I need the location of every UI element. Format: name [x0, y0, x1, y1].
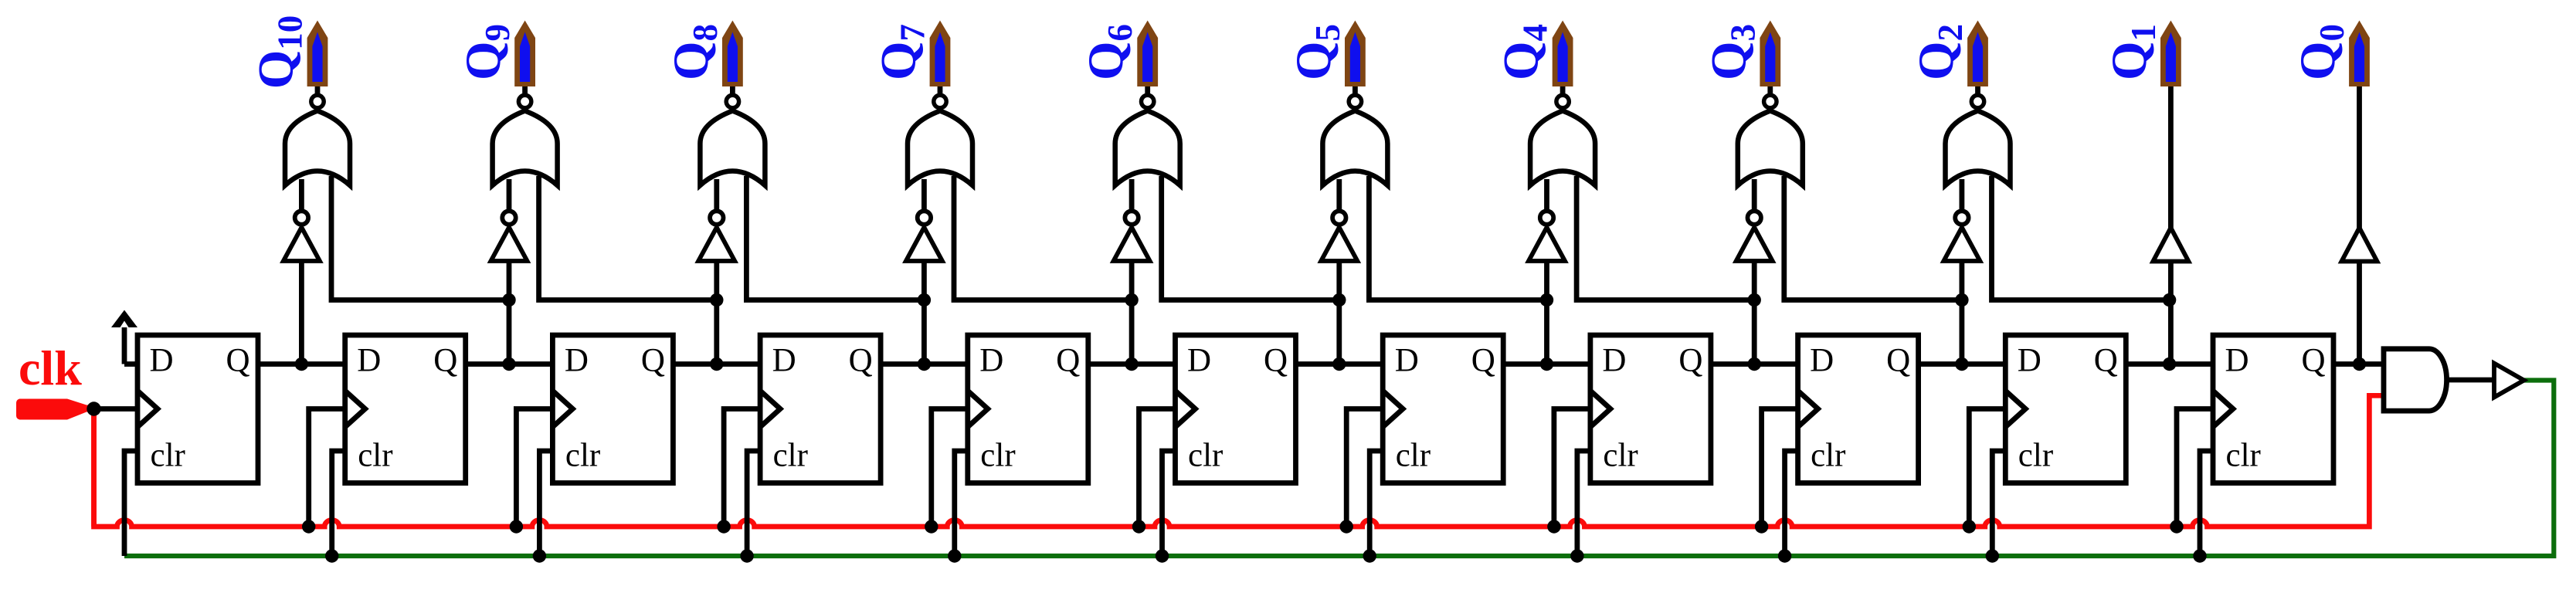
wire clr feed to U7 from green bus [1369, 451, 1383, 556]
svg-text:Q: Q [1056, 343, 1080, 379]
junction clear bus tap U8 [1570, 549, 1583, 562]
node Q2 [1955, 357, 1968, 371]
junction tap Q7 [918, 293, 931, 307]
junction clear bus tap U7 [1363, 549, 1376, 562]
wire NOR right input from Q2 tap [1784, 176, 1962, 300]
wire Q3 junction up to inverter [1752, 261, 1757, 364]
wire AND output to buffer [2447, 378, 2494, 383]
svg-text:Q: Q [849, 343, 873, 379]
junction clear bus tap U6 [1156, 549, 1169, 562]
node Q8 [710, 357, 723, 371]
D flip-flop U10 [2005, 335, 2126, 483]
NOR output bubble Q8 [726, 95, 738, 107]
svg-text:clr: clr [773, 438, 808, 474]
wire Q0 junction up to buffer [2357, 262, 2362, 364]
junction clock bus tap U5 [925, 520, 938, 533]
svg-text:clr: clr [1396, 438, 1431, 474]
wire NOR right input from Q3 tap [1576, 176, 1754, 300]
wire clock feed to U10 from red bus [1969, 409, 2005, 527]
svg-text:Q: Q [2302, 343, 2326, 379]
junction tap Q3 [1748, 293, 1761, 307]
wire Q of U2 to D of U3 [466, 361, 553, 367]
wire: red clock bus [94, 395, 2384, 527]
probe Q5 [1345, 21, 1366, 87]
wire Q of U8 to D of U9 [1711, 361, 1798, 367]
junction clock bus tap U3 [510, 520, 523, 533]
NOR gate stage Q10 [285, 111, 350, 186]
probe Q0 [2349, 21, 2370, 87]
svg-text:D: D [979, 343, 1003, 379]
NOR output bubble Q9 [518, 95, 531, 107]
wire clock feed to U2 from red bus [309, 409, 345, 527]
junction tap Q9 [502, 293, 515, 307]
svg-text:Q4: Q4 [1494, 24, 1555, 80]
wire Q4 junction up to inverter [1544, 261, 1549, 364]
wire clock feed to U6 from red bus [1139, 409, 1176, 527]
node Q6 [1125, 357, 1138, 371]
svg-text:Q10: Q10 [249, 15, 310, 90]
svg-text:D: D [1187, 343, 1211, 379]
NOR gate stage Q4 [1530, 111, 1595, 186]
clk input pin [19, 399, 94, 420]
wire bubble to probe [1560, 85, 1566, 93]
svg-text:clr: clr [565, 438, 600, 474]
inverter stage Q3 [1736, 211, 1773, 261]
NOR gate stage Q2 [1946, 111, 2011, 186]
svg-text:D: D [1810, 343, 1834, 379]
wire clr feed to U8 from green bus [1577, 451, 1590, 556]
junction clear bus tap U9 [1778, 549, 1791, 562]
junction clock bus tap U4 [717, 520, 730, 533]
D flip-flop U2 [345, 335, 466, 483]
probe Q6 [1137, 21, 1158, 87]
wire clr feed to U11 from green bus [2200, 451, 2213, 556]
wire Q of U7 to D of U8 [1503, 361, 1590, 367]
inverter stage Q4 [1529, 211, 1565, 261]
junction clear bus tap U10 [1986, 549, 1999, 562]
wire NOR right input from Q4 tap [1369, 176, 1546, 300]
wire inverter out to NOR left input [921, 179, 927, 209]
wire inverter out to NOR left input [507, 179, 512, 209]
probe Q7 [930, 21, 951, 87]
wire Q of U6 to D of U7 [1296, 361, 1383, 367]
node Q4 [1540, 357, 1553, 371]
node Q3 [1748, 357, 1761, 371]
wire Q6 junction up to inverter [1129, 261, 1135, 364]
junction clear bus tap U3 [533, 549, 546, 562]
wire Q of U5 to D of U6 [1088, 361, 1176, 367]
output buffer U13 [2494, 364, 2524, 398]
NOR gate stage Q6 [1115, 111, 1180, 186]
wire NOR right input from Q6 tap [954, 176, 1132, 300]
NOR output bubble Q2 [1971, 95, 1984, 107]
inverter stage Q8 [698, 211, 735, 261]
probe Q4 [1553, 21, 1573, 87]
junction clock bus tap U9 [1755, 520, 1768, 533]
wire clock feed to U4 from red bus [724, 409, 760, 527]
wire clock feed to U3 from red bus [516, 409, 552, 527]
wire Q10 junction up to inverter [299, 261, 304, 364]
wire NOR right input from Q7 tap [746, 176, 924, 300]
junction clear bus tap U5 [948, 549, 961, 562]
junction clock bus tap U11 [2170, 520, 2183, 533]
wire NOR right input from Q8 tap [539, 176, 717, 300]
NOR output bubble Q7 [934, 95, 946, 107]
wire Q7 junction up to inverter [921, 261, 927, 364]
D flip-flop U6 [1176, 335, 1296, 483]
probe Q10 [307, 21, 328, 87]
svg-text:clr: clr [1188, 438, 1223, 474]
wire bubble to probe [1352, 85, 1358, 93]
wire NOR right input from Q1 tap [1992, 176, 2170, 300]
wire clock feed to U11 from red bus [2177, 409, 2213, 527]
wire inverter out to NOR left input [1129, 179, 1135, 209]
wire clr feed to U3 from green bus [539, 451, 552, 556]
probe Q2 [1967, 21, 1988, 87]
inverter stage Q9 [491, 211, 528, 261]
AND gate U12 [2384, 349, 2447, 411]
wire Q2 junction up to inverter [1959, 261, 1964, 364]
svg-text:Q: Q [1886, 343, 1910, 379]
svg-text:clr: clr [1603, 438, 1638, 474]
junction clk node [87, 402, 100, 415]
wire inverter out to NOR left input [714, 179, 719, 209]
svg-text:D: D [1602, 343, 1626, 379]
wire bubble to probe [1767, 85, 1773, 93]
junction tap Q1 [2163, 293, 2176, 307]
junction tap Q6 [1125, 293, 1138, 307]
svg-text:Q7: Q7 [871, 24, 932, 80]
wire inverter out to NOR left input [1336, 179, 1342, 209]
svg-text:clr: clr [980, 438, 1015, 474]
wire clr feed to U5 from green bus [955, 451, 968, 556]
D flip-flop U4 [760, 335, 881, 483]
svg-text:D: D [1395, 343, 1419, 379]
svg-text:Q: Q [641, 343, 665, 379]
D flip-flop U3 [552, 335, 673, 483]
svg-text:D: D [2225, 343, 2249, 379]
junction clock bus tap U6 [1132, 520, 1145, 533]
svg-text:D: D [357, 343, 381, 379]
node Q7 [918, 357, 931, 371]
wire Q of U4 to D of U5 [881, 361, 968, 367]
junction clear bus tap U2 [325, 549, 338, 562]
wire bubble to probe [730, 85, 735, 93]
wire Q1 junction up to buffer [2168, 262, 2174, 364]
svg-text:clr: clr [2226, 438, 2261, 474]
svg-text:Q: Q [1678, 343, 1702, 379]
D flip-flop U1 [137, 335, 258, 483]
wire bubble to probe [522, 85, 528, 93]
junction clear bus tap U11 [2193, 549, 2206, 562]
wire NOR right input from Q5 tap [1162, 176, 1339, 300]
NOR gate stage Q9 [493, 111, 558, 186]
wire clr feed to U4 from green bus [747, 451, 760, 556]
junction tap Q2 [1955, 293, 1968, 307]
wire bubble to probe [1145, 85, 1150, 93]
wire bubble to probe [1975, 85, 1980, 93]
svg-text:clr: clr [2018, 438, 2053, 474]
wire: green clear bus from output buffer to all clr pins [124, 381, 2554, 557]
junction clock bus tap U7 [1340, 520, 1353, 533]
wire Q9 junction up to inverter [507, 261, 512, 364]
wire red clk drop to bus [91, 412, 97, 527]
node Q1 [2163, 357, 2176, 371]
inverter stage Q10 [283, 211, 320, 261]
svg-text:Q2: Q2 [1909, 24, 1970, 80]
NOR output bubble Q4 [1556, 95, 1569, 107]
wire Q of U1 to D of U2 [258, 361, 345, 367]
node Q0 [2353, 357, 2366, 371]
NOR gate stage Q7 [908, 111, 972, 186]
node Q9 [502, 357, 515, 371]
wire Q5 junction up to inverter [1336, 261, 1342, 364]
svg-text:Q0: Q0 [2290, 24, 2351, 80]
probe Q3 [1760, 21, 1780, 87]
svg-text:D: D [565, 343, 589, 379]
wire buffer to Q1 probe [2168, 85, 2174, 228]
svg-text:Q9: Q9 [456, 24, 517, 80]
wire clock feed to U9 from red bus [1762, 409, 1798, 527]
junction clock bus tap U10 [1963, 520, 1976, 533]
svg-text:Q: Q [226, 343, 250, 379]
svg-text:clr: clr [358, 438, 392, 474]
NOR gate stage Q8 [700, 111, 765, 186]
junction tap Q8 [710, 293, 723, 307]
node Q5 [1332, 357, 1346, 371]
wire Q of U10 to D of U11 [2126, 361, 2213, 367]
wire Q of U9 to D of U10 [1919, 361, 2006, 367]
NOR gate stage Q5 [1322, 111, 1387, 186]
wire NOR right input from Q9 tap [331, 176, 509, 300]
wire bubble to probe [315, 85, 321, 93]
inverter stage Q5 [1321, 211, 1357, 261]
svg-text:Q5: Q5 [1286, 24, 1347, 80]
wire clr feed to U1 from green bus [124, 451, 137, 556]
wire clr feed to U6 from green bus [1162, 451, 1176, 556]
wire clock feed to U5 from red bus [932, 409, 968, 527]
buffer Q0 [2342, 228, 2377, 262]
junction clock bus tap U8 [1547, 520, 1560, 533]
wire inverter out to NOR left input [1544, 179, 1549, 209]
D flip-flop U11 [2213, 335, 2333, 483]
svg-text:D: D [2018, 343, 2041, 379]
svg-text:Q: Q [433, 343, 457, 379]
wire bubble to probe [938, 85, 943, 93]
NOR gate stage Q3 [1738, 111, 1803, 186]
wire Q8 junction up to inverter [714, 261, 719, 364]
junction clock bus tap U2 [302, 520, 315, 533]
wire clock feed to U8 from red bus [1554, 409, 1590, 527]
wire clr feed to U10 from green bus [1992, 451, 2005, 556]
svg-text:Q: Q [1264, 343, 1288, 379]
buffer Q1 [2153, 228, 2188, 262]
svg-text:Q1: Q1 [2102, 24, 2163, 80]
svg-text:clk: clk [19, 341, 82, 395]
node Q10 [295, 357, 308, 371]
wire clk pin to FF1 clock input [94, 406, 138, 412]
probe Q8 [722, 21, 743, 87]
wire inverter out to NOR left input [1752, 179, 1757, 209]
wire Q of U11 to AND gate [2333, 361, 2384, 367]
inverter stage Q2 [1943, 211, 1980, 261]
wire buffer to Q0 probe [2357, 85, 2362, 228]
svg-text:Q3: Q3 [1701, 24, 1762, 80]
junction clear bus tap U4 [740, 549, 753, 562]
svg-text:clr: clr [1811, 438, 1845, 474]
wire clr feed to U2 from green bus [332, 451, 345, 556]
wire Q of U3 to D of U4 [673, 361, 760, 367]
D flip-flop U9 [1798, 335, 1919, 483]
D flip-flop U5 [968, 335, 1088, 483]
NOR output bubble Q6 [1142, 95, 1154, 107]
wire inverter out to NOR left input [299, 179, 304, 209]
probe Q9 [514, 21, 535, 87]
NOR output bubble Q5 [1349, 95, 1361, 107]
wire clock feed to U7 from red bus [1346, 409, 1383, 527]
power arrow (D input of U1 tied high) [111, 310, 137, 364]
svg-text:Q: Q [1471, 343, 1495, 379]
D flip-flop U8 [1590, 335, 1711, 483]
probe Q1 [2160, 21, 2181, 87]
svg-text:clr: clr [151, 438, 185, 474]
wire inverter out to NOR left input [1959, 179, 1964, 209]
svg-text:Q8: Q8 [664, 24, 725, 80]
svg-text:D: D [150, 343, 174, 379]
svg-text:Q: Q [2094, 343, 2118, 379]
junction tap Q5 [1332, 293, 1346, 307]
inverter stage Q7 [906, 211, 942, 261]
inverter stage Q6 [1114, 211, 1150, 261]
svg-text:D: D [772, 343, 796, 379]
junction tap Q4 [1540, 293, 1553, 307]
NOR output bubble Q10 [311, 95, 324, 107]
svg-text:Q6: Q6 [1078, 24, 1139, 80]
NOR output bubble Q3 [1764, 95, 1777, 107]
D flip-flop U7 [1383, 335, 1503, 483]
wire clr feed to U9 from green bus [1785, 451, 1798, 556]
